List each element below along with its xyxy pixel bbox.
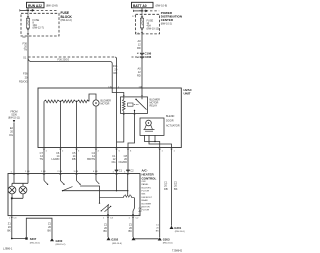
svg-text:(8W-15-2): (8W-15-2): [56, 244, 66, 246]
blower motor: [93, 100, 99, 106]
svg-text:PANEL: PANEL: [142, 183, 150, 186]
svg-text:(8W-15-6): (8W-15-6): [175, 231, 185, 233]
dashed branch wire: [28, 56, 115, 58]
wire A0 down: [141, 34, 143, 88]
svg-text:DOOR: DOOR: [166, 120, 174, 123]
svg-text:3 C6: 3 C6: [74, 171, 79, 173]
ground G201: [170, 226, 174, 229]
splice S207: [25, 237, 27, 239]
illumination feed inside control: [12, 174, 28, 187]
svg-text:2 C6: 2 C6: [57, 171, 62, 173]
svg-text:(8W-15-6): (8W-15-6): [112, 243, 122, 245]
svg-text:S1: S1: [23, 55, 27, 59]
hot-at-all-times box BATT A0: [132, 2, 154, 8]
relay switch pins: [135, 97, 143, 114]
bus arrow line: [133, 10, 143, 12]
svg-text:RD: RD: [137, 74, 141, 78]
svg-text:C1: C1: [119, 168, 123, 172]
link from chain to motor: [89, 94, 96, 101]
svg-text:A2: A2: [137, 56, 140, 59]
svg-text:ACTUATOR: ACTUATOR: [166, 124, 180, 127]
svg-text:DG: DG: [112, 160, 116, 164]
blower motor relay box: [121, 97, 148, 114]
control box top pin marks: [27, 174, 129, 175]
relay switch output wire: [128, 113, 135, 147]
illumination lamp 1: [8, 186, 16, 194]
svg-text:C206: C206: [145, 55, 152, 59]
pin marks at PDC exit: [141, 32, 143, 33]
wires inside to bottom pins: [108, 174, 135, 216]
in-line connector C206: [140, 56, 143, 58]
svg-text:BI-LEVEL: BI-LEVEL: [142, 187, 152, 189]
svg-text:LJ986-1: LJ986-1: [3, 246, 13, 250]
control bottom pin marks: [11, 217, 134, 218]
BATT wire into relay switch: [141, 88, 143, 97]
svg-text:20: 20: [10, 129, 13, 133]
svg-text:G203: G203: [163, 237, 170, 241]
dashed wire elbow down into HVAC: [115, 57, 116, 88]
svg-text:(8W-10-8): (8W-10-8): [46, 3, 58, 7]
ground triangle unlabeled: [132, 237, 136, 240]
in-line connector C2: [127, 170, 130, 172]
svg-text:MOTOR: MOTOR: [101, 103, 110, 106]
svg-text:A0: A0: [138, 67, 142, 71]
svg-text:1: 1: [129, 218, 131, 220]
svg-text:20: 20: [25, 76, 28, 80]
svg-text:6: 6: [130, 150, 132, 152]
svg-text:C2: C2: [130, 168, 134, 172]
panel lamps feed wire E2: [13, 123, 15, 174]
svg-text:C1: C1: [156, 225, 160, 227]
svg-text:20: 20: [8, 225, 11, 229]
bus arrow right: [30, 9, 32, 11]
junction dot: [11, 238, 13, 240]
svg-text:BK: BK: [174, 187, 178, 191]
svg-text:(8W-12-7): (8W-12-7): [33, 27, 44, 30]
bus arrow line left: [20, 9, 29, 11]
svg-text:TJ98642: TJ98642: [172, 249, 183, 253]
svg-text:1 C6: 1 C6: [25, 171, 30, 173]
svg-text:(8W-12-2): (8W-12-2): [61, 19, 72, 22]
hot-in-run box RUN A22: [27, 2, 45, 8]
mode switch wipers: [101, 205, 110, 212]
svg-text:(8W-15-6): (8W-15-6): [30, 242, 40, 244]
svg-text:4: 4: [98, 150, 100, 152]
svg-text:BATT A0: BATT A0: [133, 4, 147, 8]
svg-text:A0: A0: [138, 39, 142, 43]
svg-text:17: 17: [132, 16, 135, 18]
link bus: [100, 197, 135, 199]
a/c heater control box: [8, 174, 140, 216]
svg-text:4 C6: 4 C6: [93, 171, 98, 173]
svg-text:E2: E2: [10, 126, 14, 130]
svg-text:UNIT: UNIT: [184, 91, 191, 95]
power distribution center dashed box: [136, 14, 160, 34]
svg-text:C3: C3: [14, 218, 18, 220]
resistor tap wires down: [43, 101, 45, 147]
svg-text:3: 3: [78, 150, 80, 152]
relay mech link dashed: [134, 104, 139, 106]
svg-text:S207: S207: [30, 237, 37, 241]
svg-text:CONTROL: CONTROL: [142, 177, 157, 181]
dashed bus continuation: [150, 10, 159, 12]
switch bus to mode section: [80, 186, 99, 203]
svg-text:(8W-10-8): (8W-10-8): [156, 3, 168, 7]
svg-text:12: 12: [138, 70, 141, 74]
svg-text:2: 2: [62, 150, 64, 152]
dashed bus continuation: [37, 9, 59, 11]
svg-text:FLOOR: FLOOR: [142, 210, 150, 212]
mode ground wire: [132, 216, 134, 238]
junction dot tap 3: [76, 101, 78, 103]
svg-text:RD/OG: RD/OG: [19, 80, 28, 84]
svg-text:12: 12: [138, 43, 141, 47]
in-line connector C106: [140, 53, 143, 55]
svg-text:TN: TN: [24, 48, 28, 52]
svg-text:REAR: REAR: [142, 199, 148, 202]
svg-text:DEFROST: DEFROST: [142, 197, 153, 199]
svg-text:1: 1: [46, 150, 48, 152]
svg-text:G200: G200: [56, 239, 63, 243]
lamp ground wire: [12, 216, 27, 239]
svg-text:Z1: Z1: [48, 222, 52, 226]
svg-text:F36: F36: [113, 64, 118, 68]
dashed stub into C206: [132, 56, 140, 58]
svg-text:A2: A2: [137, 52, 140, 55]
svg-text:LG/RD: LG/RD: [51, 157, 59, 161]
svg-text:1 C6: 1 C6: [41, 171, 46, 173]
svg-text:(8W-10-13): (8W-10-13): [147, 27, 160, 30]
bus arrow right: [144, 10, 146, 12]
arrow from S206: [13, 120, 15, 123]
actuator motor circle: [146, 120, 152, 126]
ground G200: [50, 238, 54, 241]
svg-text:DB: DB: [164, 187, 168, 191]
wire from dashed feed down through box: [116, 88, 118, 148]
blower speed wires to control: [43, 148, 45, 174]
svg-text:1: 1: [9, 218, 11, 220]
blower motor resistor chain: [44, 100, 60, 103]
svg-text:TN: TN: [40, 157, 44, 161]
HVAC bottom pin marks: [43, 149, 97, 150]
fuse F8 symbol: [26, 10, 29, 36]
svg-text:RD: RD: [114, 71, 118, 75]
svg-text:G202: G202: [111, 237, 118, 241]
ground G203: [158, 237, 162, 240]
svg-text:C2: C2: [136, 218, 140, 220]
relay coil output wire: [117, 113, 124, 142]
svg-text:1: 1: [103, 218, 105, 220]
fuse F11 symbol: [140, 11, 143, 34]
blower switch contacts: [44, 174, 96, 181]
junction dot: [141, 10, 143, 12]
wire stub from RUN box: [27, 8, 29, 11]
svg-text:(8W-15-11): (8W-15-11): [8, 117, 20, 120]
relay core: [128, 103, 134, 106]
svg-text:F36: F36: [23, 72, 28, 76]
svg-text:Z1: Z1: [8, 222, 12, 226]
wire stub from BATT box: [141, 8, 143, 11]
lamp return wires: [12, 194, 23, 216]
svg-text:BR/TN: BR/TN: [87, 157, 95, 161]
actuator wires to box bottom: [145, 135, 160, 147]
svg-text:(8W-15-6): (8W-15-6): [163, 243, 173, 245]
svg-text:(8W-10-2): (8W-10-2): [161, 23, 172, 26]
svg-text:1: 1: [162, 150, 164, 152]
svg-text:F36 20OG: F36 20OG: [58, 58, 70, 61]
resistor in control: [127, 174, 129, 195]
svg-text:BLEND: BLEND: [166, 115, 175, 118]
svg-text:BK: BK: [129, 229, 133, 233]
svg-text:20: 20: [156, 228, 159, 230]
svg-text:A/C: A/C: [139, 210, 143, 213]
svg-text:BLOCK: BLOCK: [61, 15, 73, 19]
actuator gear symbol: [144, 125, 155, 131]
relay pin ticks: [123, 96, 143, 115]
illumination lamp 2: [19, 186, 27, 194]
motor ground wire: [95, 106, 97, 147]
junction dot: [27, 10, 29, 12]
svg-text:CENTER: CENTER: [161, 18, 174, 22]
fan switch wiper arm: [62, 190, 63, 191]
svg-text:MIX: MIX: [142, 194, 146, 196]
switch ground wire: [107, 216, 109, 238]
ground G202: [107, 237, 111, 240]
svg-text:1 A: 1 A: [139, 85, 143, 88]
in-line connector C1: [115, 170, 118, 172]
ground wire far right G201: [171, 148, 173, 226]
wire F36 down left side: [27, 36, 29, 174]
relay coil: [123, 99, 126, 111]
wire from S1 elbow to relay coil: [112, 88, 124, 97]
svg-text:1: 1: [174, 150, 176, 152]
pin marks at fuse block exit: [27, 33, 29, 34]
svg-text:RELAY: RELAY: [150, 105, 158, 108]
pin mark E2 at control top: [13, 174, 15, 175]
svg-text:RUN A22: RUN A22: [28, 4, 42, 8]
solid branch wire from S1: [28, 58, 112, 89]
svg-text:5: 5: [119, 150, 121, 152]
svg-text:OG: OG: [9, 133, 13, 137]
junction dot tap 2: [60, 101, 62, 103]
relay switch arm: [136, 99, 147, 109]
svg-text:(W/: (W/: [139, 208, 143, 210]
svg-text:OFF: OFF: [142, 181, 147, 183]
svg-text:DB: DB: [72, 157, 76, 161]
splice to ground run: [26, 218, 52, 238]
svg-text:C3: C3: [110, 218, 114, 220]
svg-text:FLOOR: FLOOR: [142, 191, 150, 193]
svg-text:MOTOR: MOTOR: [142, 207, 151, 209]
ground bus line: [135, 238, 159, 240]
svg-text:G201: G201: [174, 226, 181, 230]
svg-text:RD: RD: [137, 46, 141, 50]
HVAC unit box: [38, 88, 181, 148]
lamp return junction dot: [11, 197, 13, 199]
svg-text:OG/RD: OG/RD: [118, 160, 127, 164]
fuse block dashed box: [21, 13, 59, 36]
svg-text:BK: BK: [156, 231, 159, 233]
svg-text:BLOWER: BLOWER: [142, 203, 152, 205]
ground wire right G203: [159, 148, 161, 238]
svg-text:BK: BK: [48, 229, 52, 233]
blend door actuator box: [140, 118, 164, 135]
svg-text:BK: BK: [104, 229, 108, 233]
relay wires down to control: [116, 148, 118, 174]
svg-text:BK: BK: [7, 229, 11, 233]
svg-text:20: 20: [114, 68, 117, 72]
svg-text:C A: C A: [108, 85, 112, 88]
svg-text:20: 20: [48, 225, 51, 229]
